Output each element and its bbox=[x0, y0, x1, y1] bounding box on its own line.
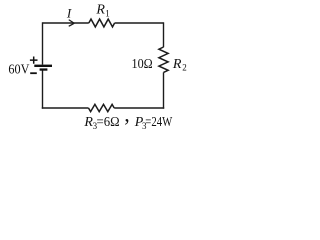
label R3=6ohm, P3=24W bbox=[83, 102, 172, 132]
battery negative plate (short thick) bbox=[40, 68, 48, 70]
wire right lower segment bbox=[163, 72, 165, 108]
svg-text:1: 1 bbox=[105, 8, 110, 18]
svg-text:10Ω: 10Ω bbox=[132, 57, 153, 72]
svg-text:R: R bbox=[95, 3, 105, 18]
wire top-right segment bbox=[115, 22, 164, 24]
wire left upper segment bbox=[42, 22, 44, 64]
wire right upper segment bbox=[163, 22, 165, 47]
svg-text:2: 2 bbox=[182, 63, 187, 73]
wire left lower segment bbox=[42, 71, 44, 109]
battery plus sign bbox=[30, 57, 38, 64]
svg-text:I: I bbox=[66, 6, 72, 21]
wire top-left segment with current arrow bbox=[43, 22, 89, 24]
resistor R3 zigzag bbox=[89, 104, 115, 111]
wire bottom-left segment bbox=[42, 107, 89, 109]
svg-text:=24W: =24W bbox=[145, 115, 173, 130]
current direction arrowhead bbox=[69, 20, 74, 26]
resistor R1 zigzag bbox=[89, 19, 115, 27]
svg-text:,: , bbox=[124, 102, 130, 127]
battery minus sign bbox=[30, 72, 37, 74]
svg-text:=6Ω: =6Ω bbox=[97, 115, 120, 130]
svg-text:60V: 60V bbox=[8, 63, 29, 78]
battery positive plate (long) bbox=[34, 65, 52, 67]
svg-text:R: R bbox=[172, 57, 182, 72]
resistor R2 zigzag bbox=[159, 47, 168, 72]
wire bottom-right segment bbox=[114, 107, 164, 109]
